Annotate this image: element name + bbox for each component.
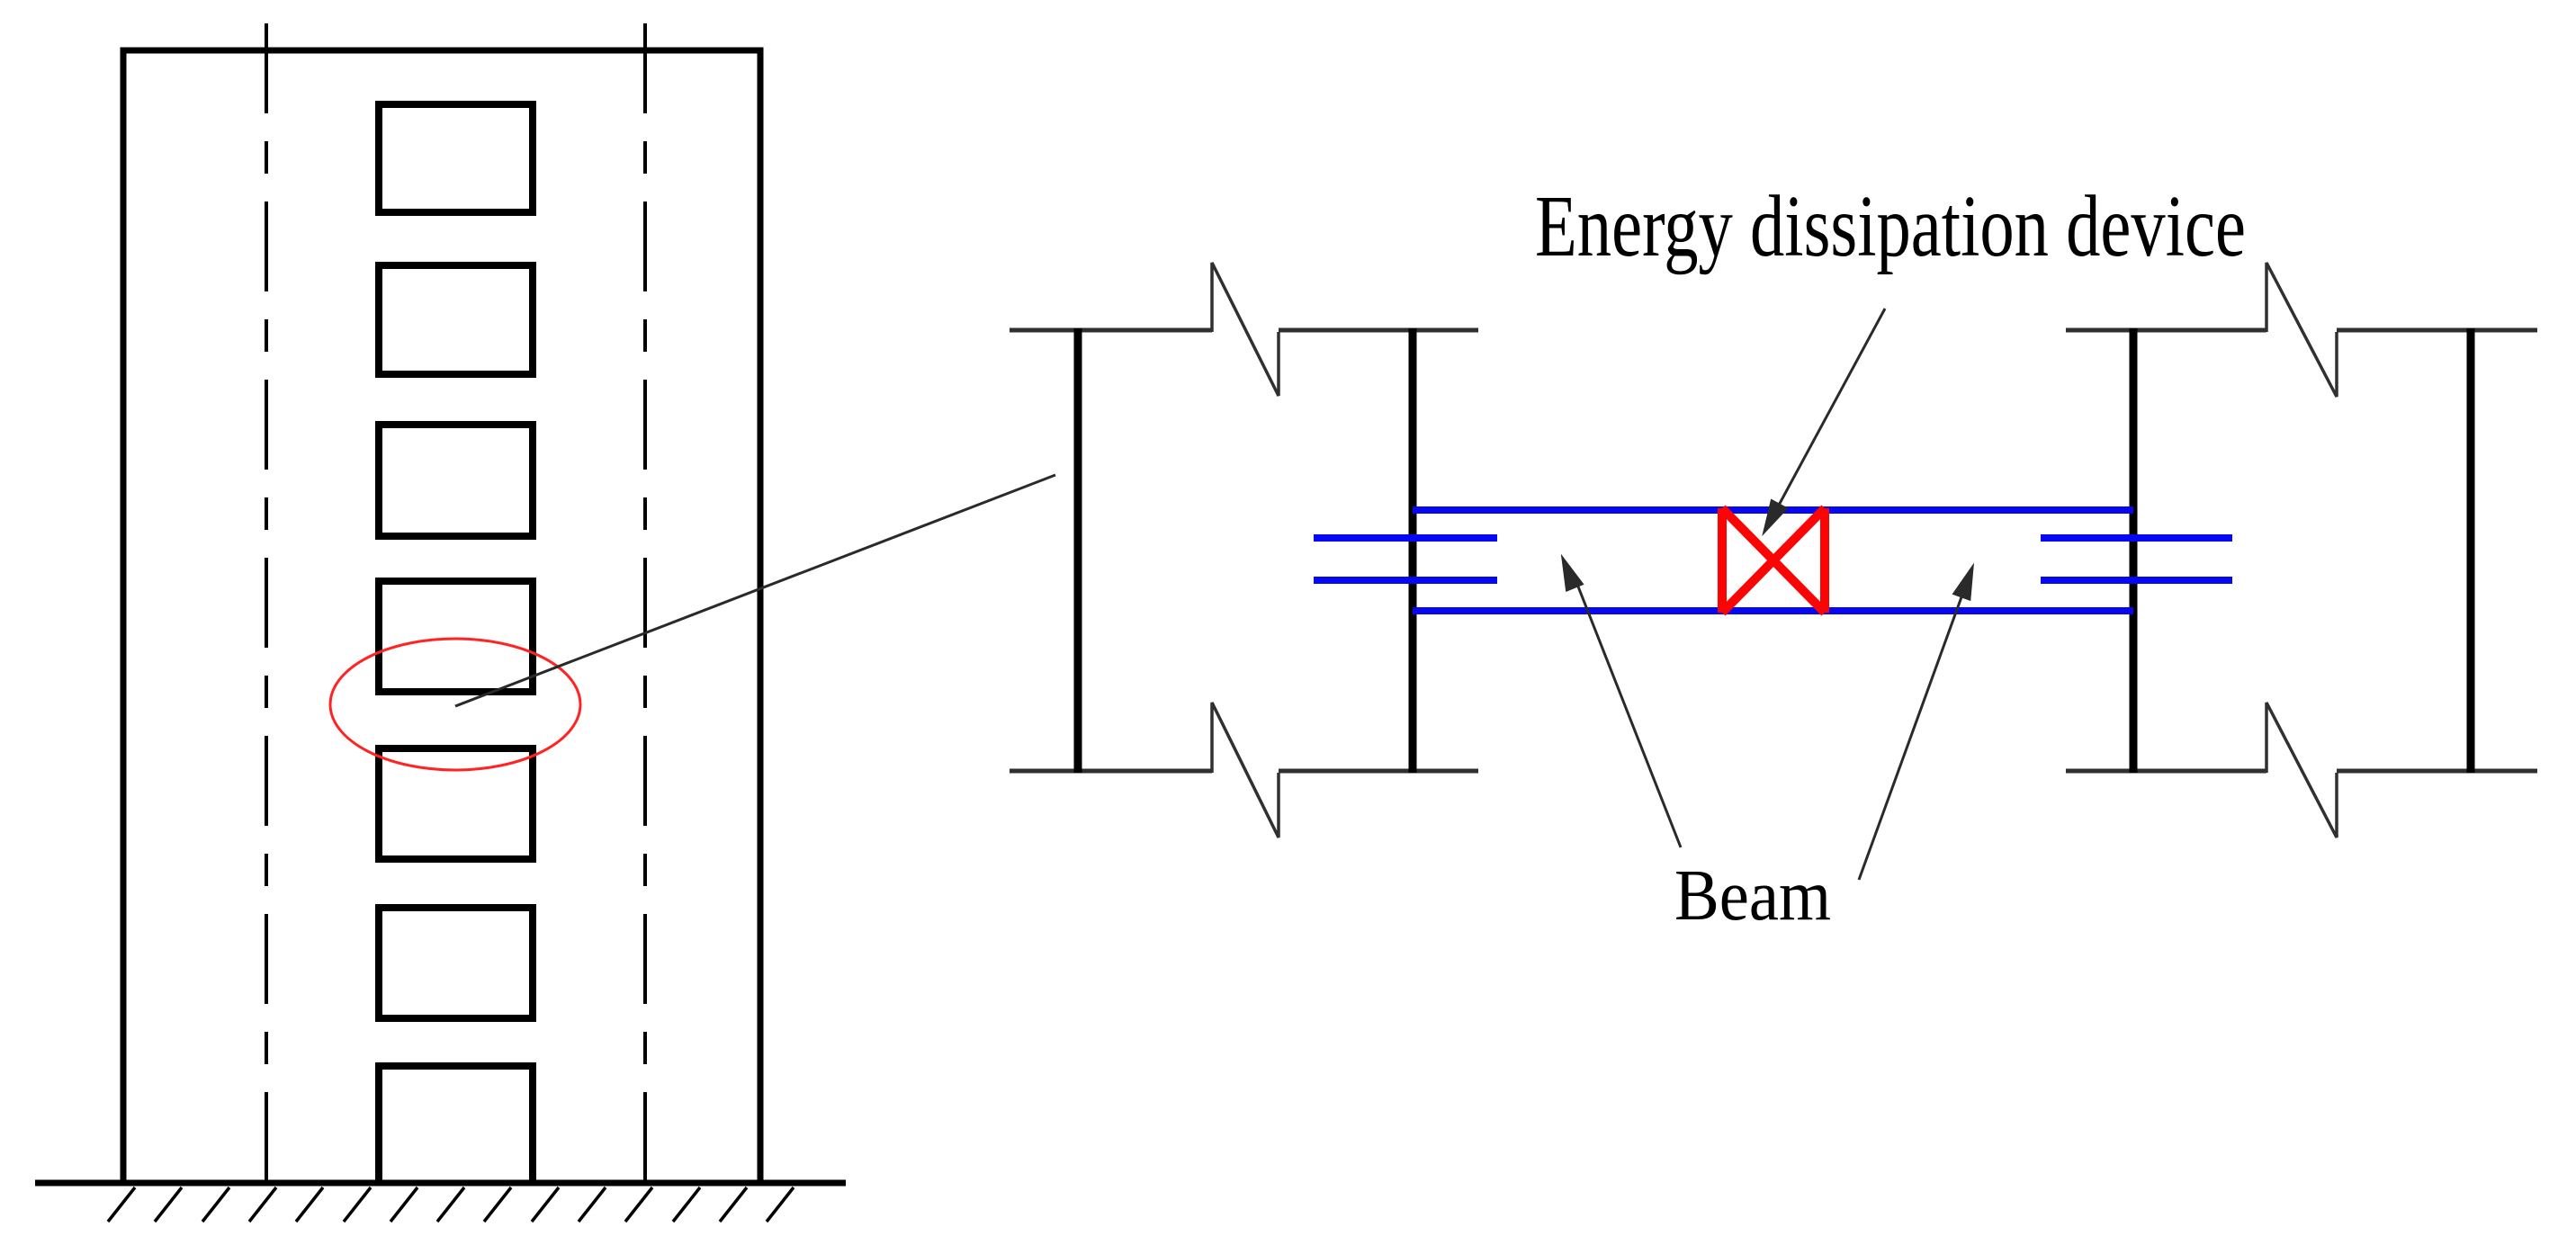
svg-text:Beam: Beam (1674, 856, 1831, 936)
svg-text:Energy dissipation device: Energy dissipation device (1535, 178, 2246, 274)
